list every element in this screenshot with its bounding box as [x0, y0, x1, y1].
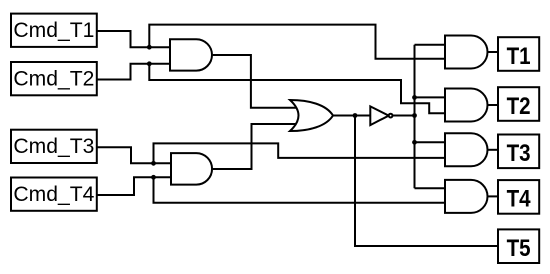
- svg-text:Cmd_T2: Cmd_T2: [13, 66, 94, 90]
- svg-text:T3: T3: [507, 140, 531, 167]
- svg-text:T5: T5: [507, 235, 531, 262]
- svg-text:Cmd_T3: Cmd_T3: [13, 134, 94, 158]
- svg-text:Cmd_T4: Cmd_T4: [13, 182, 94, 206]
- svg-text:T4: T4: [507, 186, 531, 213]
- svg-text:Cmd_T1: Cmd_T1: [13, 18, 94, 42]
- svg-text:T1: T1: [507, 43, 531, 70]
- svg-text:T2: T2: [507, 93, 531, 120]
